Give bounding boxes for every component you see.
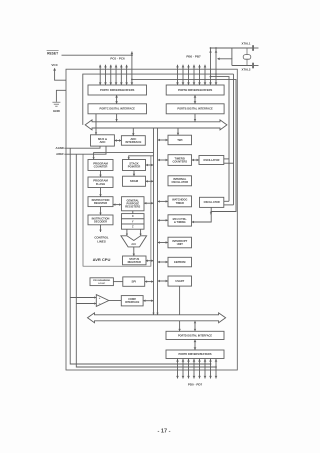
wire bus to TWI <box>158 139 169 141</box>
svg-text:REGISTERS: REGISTERS <box>125 205 140 209</box>
block timers/counters <box>168 155 192 166</box>
pin PD1 <box>182 359 184 379</box>
pin PB0 <box>177 65 179 85</box>
wire oscillator1 to XTAL2 <box>224 162 234 164</box>
svg-text:UNIT: UNIT <box>177 242 183 246</box>
chip outer border <box>66 69 237 370</box>
block USART <box>168 276 192 286</box>
block instruction decoder <box>88 215 113 225</box>
wire oscillator2 to XTAL1 <box>224 200 229 202</box>
wire bus feed to program counter <box>94 153 154 160</box>
block stack pointer <box>123 160 146 171</box>
wire registers to ALU right <box>140 229 142 235</box>
wire RESET to PC6 <box>62 54 132 56</box>
wire XTAL2 internal <box>233 74 235 205</box>
block program counter <box>88 160 113 171</box>
pin PD4 <box>199 359 201 379</box>
pin PB7 <box>215 48 217 85</box>
wire XTAL1 ext <box>254 47 259 49</box>
wire oscillator1 to XTAL1 <box>224 158 229 160</box>
wire analog left A <box>70 148 210 364</box>
pin PC6 <box>131 52 133 86</box>
block PORTB digital interface <box>166 104 224 114</box>
AVR CPU enclosure <box>83 155 151 267</box>
register Y <box>122 219 145 224</box>
svg-text:POINTER: POINTER <box>128 165 140 169</box>
block interrupt unit <box>168 237 192 248</box>
wire oscillator2 to XTAL2 <box>224 204 234 206</box>
svg-text:ADC: ADC <box>99 140 105 144</box>
crystal Y1 <box>246 48 248 55</box>
wire registers to ALU left <box>126 229 128 235</box>
wire RESET internal <box>132 79 236 214</box>
block internal oscillator <box>168 176 192 186</box>
pin marker XTAL1 <box>252 45 254 51</box>
block SRAM <box>123 176 146 186</box>
svg-text:- 17 -: - 17 - <box>157 428 170 434</box>
block comp interface <box>121 296 143 306</box>
wire bus to USART <box>158 280 169 282</box>
wire PORTB drivers-interface <box>194 95 196 104</box>
block MCU ctrl and timing <box>168 215 192 226</box>
pin PB2 <box>188 65 190 85</box>
bottom data bus <box>88 313 226 323</box>
svg-text:PORTD DIGITAL INTERFACE: PORTD DIGITAL INTERFACE <box>178 334 212 337</box>
svg-text:−: − <box>99 302 101 306</box>
wire registers to X Y Z <box>132 211 134 214</box>
svg-text:PORTB DIGITAL INTERFACE: PORTB DIGITAL INTERFACE <box>177 107 213 111</box>
svg-text:PORTC DIGITAL INTERFACE: PORTC DIGITAL INTERFACE <box>100 107 136 111</box>
svg-text:& TIMING: & TIMING <box>174 220 186 224</box>
pin PC0 <box>99 65 101 85</box>
central data bus band <box>153 128 155 315</box>
pin PB4 <box>199 65 201 85</box>
svg-text:USART: USART <box>175 279 184 283</box>
svg-text:XTAL2: XTAL2 <box>242 68 251 72</box>
ALU U1 <box>121 236 147 247</box>
svg-text:GND: GND <box>53 109 61 113</box>
pin PD2 <box>188 359 190 379</box>
svg-text:AREF: AREF <box>56 152 64 156</box>
svg-text:RESET: RESET <box>47 51 58 55</box>
wire stack pointer to SRAM <box>133 171 135 177</box>
pin PB1 <box>182 65 184 85</box>
pin PC3 <box>115 65 117 85</box>
wire crystal loop left <box>231 48 233 59</box>
register Z <box>122 224 145 229</box>
wire bus to MUX and ADC <box>95 114 97 135</box>
wire USART to PORTD interface <box>179 286 181 331</box>
wire instruction register to registers <box>113 204 122 206</box>
pin PC5 <box>126 65 128 85</box>
wire AREF <box>64 146 106 154</box>
wire PORTC interface to bus <box>116 114 118 122</box>
svg-text:+: + <box>99 296 101 300</box>
svg-text:REGISTER: REGISTER <box>94 201 107 205</box>
wire programming logic to SPI <box>113 281 122 283</box>
svg-text:PB0 - PB7: PB0 - PB7 <box>186 55 201 59</box>
pin PC1 <box>104 65 106 85</box>
wire stack pointer to bus <box>146 164 154 166</box>
svg-text:OSCILLATOR: OSCILLATOR <box>171 180 188 184</box>
block PORTD drivers/buffers <box>166 350 224 359</box>
block PORTD digital interface <box>166 331 224 339</box>
wire PORTB interface to bus <box>194 114 196 122</box>
wire XTAL2 stub <box>218 59 232 66</box>
pin PD5 <box>204 359 206 379</box>
wire bus to TWI <box>177 128 179 135</box>
pin marker XTAL2 <box>252 63 254 69</box>
svg-text:PORTD DRIVERS/BUFFERS: PORTD DRIVERS/BUFFERS <box>178 353 211 356</box>
svg-text:SRAM: SRAM <box>130 179 139 183</box>
pin PC2 <box>110 65 112 85</box>
wire PC to flash <box>100 171 102 178</box>
svg-text:FLASH: FLASH <box>96 182 105 186</box>
wire status register to bus <box>146 260 154 262</box>
pin PB5 <box>204 65 206 85</box>
pin PD7 <box>215 359 217 379</box>
block instruction register <box>88 197 113 207</box>
svg-text:PORTC DRIVERS/BUFFERS: PORTC DRIVERS/BUFFERS <box>100 88 135 92</box>
block PORTB drivers/buffers <box>166 85 224 95</box>
svg-text:REGISTER: REGISTER <box>128 260 141 264</box>
svg-text:COUNTER: COUNTER <box>94 165 108 169</box>
svg-text:PC0 - PC6: PC0 - PC6 <box>110 57 125 61</box>
wire bus to ADC interface <box>132 128 134 136</box>
block PORTC drivers/buffers <box>88 85 147 95</box>
wire PORTC drivers-interface <box>116 95 118 104</box>
wire instruction register to decoder <box>100 207 102 215</box>
ground symbol <box>52 101 60 103</box>
svg-text:Y: Y <box>132 219 134 223</box>
svg-text:PROGRAMMING: PROGRAMMING <box>93 279 110 282</box>
svg-text:INTERFACE: INTERFACE <box>125 301 140 304</box>
svg-text:OSCILLATOR: OSCILLATOR <box>203 159 219 162</box>
wire comparator input plus <box>70 297 96 299</box>
svg-text:VCC: VCC <box>51 63 58 67</box>
svg-text:COUNTERS: COUNTERS <box>173 159 188 163</box>
wire registers to bus <box>144 202 154 204</box>
wire decoder to control lines <box>100 225 102 232</box>
svg-text:ALU: ALU <box>131 243 136 246</box>
block oscillator 1 <box>199 156 224 165</box>
pin PC4 <box>120 65 122 85</box>
wire XTAL1 <box>211 47 253 49</box>
pin PB6 <box>210 48 212 85</box>
wire analog left B <box>76 154 216 367</box>
wire comp interface to bus <box>143 300 153 302</box>
block oscillator 2 <box>200 197 224 207</box>
register X <box>122 214 145 219</box>
pin PD3 <box>193 359 195 379</box>
block TWI <box>168 135 192 145</box>
pin PD0 <box>177 359 179 379</box>
block programming logic <box>90 278 113 286</box>
wire GND <box>56 90 66 102</box>
wire bus to timers <box>158 159 169 161</box>
wire comparator input minus <box>76 303 96 305</box>
wire ALU to status register <box>133 247 135 256</box>
block program flash <box>88 177 113 188</box>
svg-text:DECODER: DECODER <box>94 219 107 223</box>
svg-text:EEPROM: EEPROM <box>174 260 185 264</box>
wire MUX-ADC interface <box>114 140 121 142</box>
wire comparator to comp interface <box>109 300 122 302</box>
svg-text:AVR CPU: AVR CPU <box>93 257 111 262</box>
top data bus <box>85 120 227 130</box>
wire SPI to bus <box>145 281 154 283</box>
block ADC interface <box>121 136 145 146</box>
wire bus to interrupt unit <box>158 242 169 244</box>
wire XTAL1 internal <box>211 77 230 202</box>
wire timers to oscillator1 <box>192 159 200 161</box>
wire AGND <box>64 146 100 148</box>
svg-text:AGND: AGND <box>56 146 64 150</box>
wire bottom bus to PORTD interface <box>194 321 196 332</box>
block watchdog timer <box>168 196 192 207</box>
svg-text:PD0 - PD7: PD0 - PD7 <box>188 383 203 387</box>
wire SRAM to bus <box>146 180 154 182</box>
wire oscillator2 to MCU ctrl <box>192 207 212 222</box>
svg-text:X: X <box>132 214 134 218</box>
wire bus to EEPROM <box>158 261 169 263</box>
inner top rail <box>83 74 234 125</box>
block MUX and ADC <box>91 135 115 146</box>
wire XTAL2 ext <box>254 65 259 67</box>
block PORTC digital interface <box>88 104 147 114</box>
pin PD6 <box>210 359 212 379</box>
wire VCC <box>53 68 56 71</box>
wire XTAL2 <box>232 65 252 67</box>
comparator U2 <box>96 295 109 307</box>
svg-text:LINES: LINES <box>97 240 106 244</box>
svg-text:XTAL1: XTAL1 <box>242 42 251 46</box>
block SPI <box>123 277 145 286</box>
svg-text:PORTB DRIVERS/BUFFERS: PORTB DRIVERS/BUFFERS <box>178 88 213 92</box>
svg-text:LOGIC: LOGIC <box>98 283 105 285</box>
wire bus feed to stack pointer <box>129 156 154 160</box>
wire bus to MCU ctrl <box>158 219 169 221</box>
svg-text:INTERFACE: INTERFACE <box>125 140 141 144</box>
svg-text:TWI: TWI <box>177 138 182 142</box>
svg-text:OSCILLATOR: OSCILLATOR <box>204 201 220 204</box>
block general purpose registers <box>122 197 145 211</box>
wire PORTD interface-drivers <box>194 340 196 351</box>
block status register <box>123 256 147 265</box>
wire flash to instruction register <box>100 188 102 197</box>
block EEPROM <box>168 257 192 267</box>
pin PB3 <box>193 65 195 85</box>
wire bus to watchdog <box>158 200 169 202</box>
svg-text:SPI: SPI <box>132 280 137 284</box>
svg-text:TIMER: TIMER <box>176 201 184 205</box>
